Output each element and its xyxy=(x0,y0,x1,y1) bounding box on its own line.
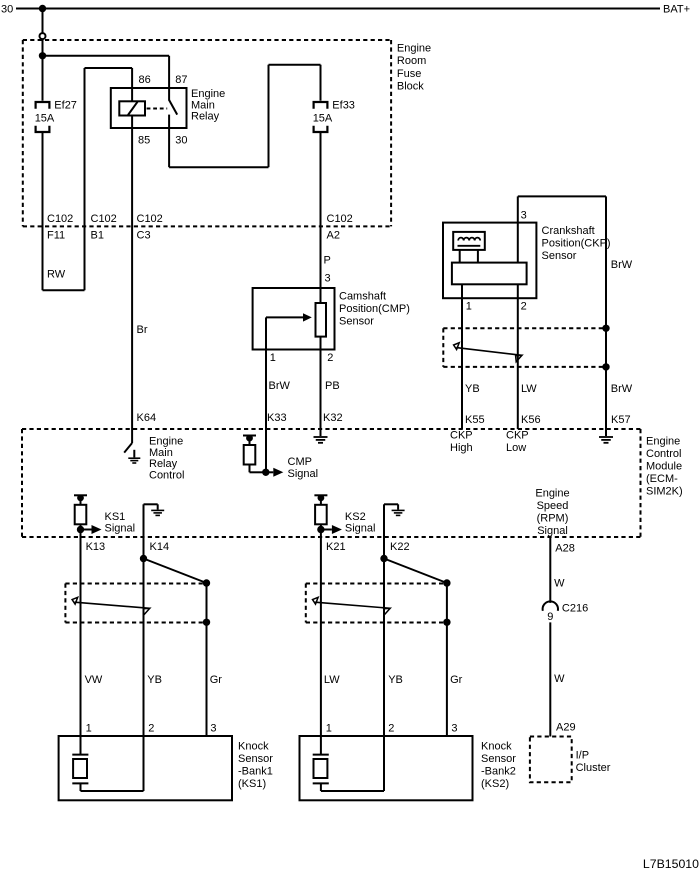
svg-text:1: 1 xyxy=(326,722,332,734)
svg-text:3: 3 xyxy=(325,273,331,285)
svg-text:K56: K56 xyxy=(521,414,541,426)
svg-text:-Bank1: -Bank1 xyxy=(238,766,273,778)
svg-text:KS1: KS1 xyxy=(105,511,126,523)
svg-text:1: 1 xyxy=(270,352,276,364)
svg-text:K33: K33 xyxy=(267,412,287,424)
svg-text:2: 2 xyxy=(388,722,394,734)
svg-text:A28: A28 xyxy=(555,543,575,555)
svg-text:Br: Br xyxy=(137,324,148,336)
svg-text:Knock: Knock xyxy=(238,741,269,753)
svg-text:Position(CMP): Position(CMP) xyxy=(339,303,410,315)
svg-text:Engine: Engine xyxy=(397,43,431,55)
svg-text:15A: 15A xyxy=(313,113,333,125)
svg-text:Sensor: Sensor xyxy=(542,250,577,262)
svg-text:VW: VW xyxy=(85,674,103,686)
svg-text:W: W xyxy=(554,673,565,685)
svg-text:BrW: BrW xyxy=(269,380,291,392)
svg-text:86: 86 xyxy=(139,74,151,86)
svg-text:A2: A2 xyxy=(327,230,340,242)
svg-text:LW: LW xyxy=(521,383,537,395)
svg-text:A29: A29 xyxy=(556,721,576,733)
svg-text:1: 1 xyxy=(86,722,92,734)
svg-text:Signal: Signal xyxy=(288,468,319,480)
svg-text:Cluster: Cluster xyxy=(576,762,611,774)
svg-text:(ECM-: (ECM- xyxy=(646,473,678,485)
svg-text:P: P xyxy=(324,255,331,267)
svg-text:KS2: KS2 xyxy=(345,511,366,523)
svg-text:K21: K21 xyxy=(326,541,346,553)
svg-text:L7B15010: L7B15010 xyxy=(643,857,699,871)
svg-text:BrW: BrW xyxy=(611,259,633,271)
svg-text:YB: YB xyxy=(388,674,403,686)
svg-text:85: 85 xyxy=(138,135,150,147)
svg-text:Engine: Engine xyxy=(535,488,569,500)
svg-text:Control: Control xyxy=(149,470,184,482)
svg-text:3: 3 xyxy=(451,722,457,734)
svg-text:F11: F11 xyxy=(47,230,65,242)
svg-text:1: 1 xyxy=(466,300,472,312)
svg-text:C102: C102 xyxy=(327,213,353,225)
svg-text:C216: C216 xyxy=(562,603,588,615)
svg-text:Relay: Relay xyxy=(149,458,178,470)
svg-text:K22: K22 xyxy=(390,541,410,553)
svg-text:C102: C102 xyxy=(47,213,73,225)
svg-text:Camshaft: Camshaft xyxy=(339,291,386,303)
svg-text:Control: Control xyxy=(646,448,681,460)
svg-text:2: 2 xyxy=(148,722,154,734)
svg-text:B1: B1 xyxy=(91,230,104,242)
svg-text:Speed: Speed xyxy=(537,500,569,512)
svg-text:15A: 15A xyxy=(35,113,55,125)
svg-text:Gr: Gr xyxy=(450,674,463,686)
svg-text:CKP: CKP xyxy=(450,430,473,442)
svg-text:CKP: CKP xyxy=(506,430,529,442)
svg-text:Room: Room xyxy=(397,55,426,67)
svg-text:Module: Module xyxy=(646,461,682,473)
svg-text:3: 3 xyxy=(521,209,527,221)
svg-text:Block: Block xyxy=(397,80,424,92)
svg-text:K13: K13 xyxy=(86,541,106,553)
svg-text:BAT+: BAT+ xyxy=(663,4,690,16)
svg-text:87: 87 xyxy=(175,74,187,86)
svg-text:9: 9 xyxy=(547,611,553,623)
svg-text:K57: K57 xyxy=(611,414,631,426)
svg-text:W: W xyxy=(554,578,565,590)
svg-text:Sensor: Sensor xyxy=(481,753,516,765)
svg-text:BrW: BrW xyxy=(611,383,633,395)
svg-text:Signal: Signal xyxy=(345,523,376,535)
svg-text:-Bank2: -Bank2 xyxy=(481,766,516,778)
svg-text:K32: K32 xyxy=(323,412,343,424)
svg-text:C3: C3 xyxy=(137,230,151,242)
svg-text:CMP: CMP xyxy=(288,456,312,468)
svg-text:PB: PB xyxy=(325,380,340,392)
svg-text:I/P: I/P xyxy=(576,750,589,762)
svg-text:Signal: Signal xyxy=(537,525,568,537)
svg-text:Low: Low xyxy=(506,442,526,454)
svg-text:Ef27: Ef27 xyxy=(54,99,77,111)
svg-text:K55: K55 xyxy=(465,414,485,426)
svg-text:(KS2): (KS2) xyxy=(481,778,509,790)
svg-text:YB: YB xyxy=(147,674,162,686)
svg-text:Fuse: Fuse xyxy=(397,68,421,80)
svg-text:Signal: Signal xyxy=(105,523,136,535)
svg-text:(KS1): (KS1) xyxy=(238,778,266,790)
svg-text:High: High xyxy=(450,442,473,454)
svg-text:C102: C102 xyxy=(91,213,117,225)
svg-text:RW: RW xyxy=(47,269,66,281)
svg-text:Engine: Engine xyxy=(191,88,225,100)
svg-text:Gr: Gr xyxy=(210,674,223,686)
svg-text:Relay: Relay xyxy=(191,111,220,123)
svg-text:YB: YB xyxy=(465,383,480,395)
svg-text:K64: K64 xyxy=(137,412,157,424)
svg-text:2: 2 xyxy=(327,352,333,364)
svg-text:(RPM): (RPM) xyxy=(537,512,569,524)
svg-text:Main: Main xyxy=(191,99,215,111)
svg-text:Engine: Engine xyxy=(646,436,680,448)
svg-text:K14: K14 xyxy=(150,541,170,553)
svg-text:2: 2 xyxy=(521,300,527,312)
svg-text:Knock: Knock xyxy=(481,741,512,753)
svg-text:SIM2K): SIM2K) xyxy=(646,486,683,498)
svg-text:Ef33: Ef33 xyxy=(332,99,355,111)
svg-text:30: 30 xyxy=(1,4,13,16)
svg-text:Sensor: Sensor xyxy=(238,753,273,765)
svg-text:Main: Main xyxy=(149,447,173,459)
svg-text:30: 30 xyxy=(175,135,187,147)
svg-text:Sensor: Sensor xyxy=(339,316,374,328)
svg-text:Position(CKP): Position(CKP) xyxy=(542,238,611,250)
svg-text:LW: LW xyxy=(324,674,340,686)
svg-text:Crankshaft: Crankshaft xyxy=(542,225,595,237)
svg-text:Engine: Engine xyxy=(149,435,183,447)
svg-text:C102: C102 xyxy=(137,213,163,225)
svg-text:3: 3 xyxy=(210,722,216,734)
